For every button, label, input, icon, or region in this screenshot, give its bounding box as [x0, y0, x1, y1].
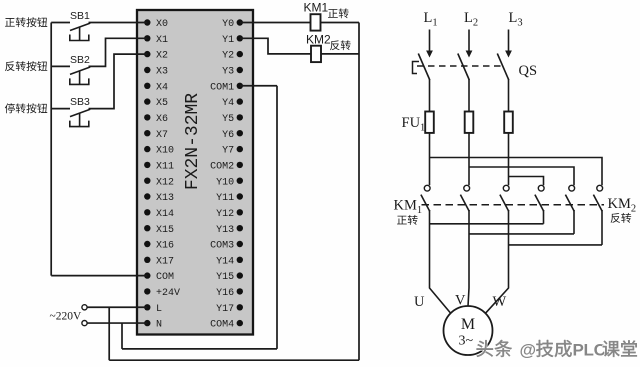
- svg-text:COM1: COM1: [210, 82, 234, 93]
- contact KM1 a: pivot: [424, 185, 430, 191]
- wire KM2 contact b down: [573, 210, 575, 234]
- svg-text:Y5: Y5: [222, 114, 234, 125]
- wire L: [87, 306, 147, 308]
- svg-text:COM3: COM3: [210, 241, 234, 252]
- wire KM2 contact c down: [601, 210, 603, 245]
- output terminal Y2: [222, 51, 243, 62]
- svg-text:X5: X5: [156, 98, 168, 109]
- label 正转按钮 (forward button): [5, 17, 47, 27]
- fuse FU1 a: [425, 112, 434, 133]
- contact KM2 c: pivot: [597, 185, 603, 191]
- input terminal N: [144, 320, 162, 331]
- svg-text:Y14: Y14: [216, 256, 234, 267]
- svg-text:X12: X12: [156, 177, 174, 188]
- wire junction U row: [430, 223, 544, 225]
- wire N: [87, 322, 147, 324]
- svg-text:PLC: PLC: [573, 341, 606, 360]
- motor lead V: [468, 210, 469, 306]
- wire fuse c down: [508, 133, 510, 185]
- svg-text:Y12: Y12: [216, 209, 234, 220]
- svg-text:KM2: KM2: [608, 196, 637, 215]
- svg-text:Y4: Y4: [222, 98, 234, 109]
- wire junction W row: [509, 244, 603, 246]
- pushbutton SB2 (NO contact): [51, 66, 90, 84]
- wire Y1 to KM2 coil: [240, 38, 311, 54]
- svg-text:L2: L2: [464, 10, 478, 29]
- svg-text:M: M: [461, 316, 475, 333]
- svg-text:KM1: KM1: [394, 198, 423, 217]
- svg-text:SB2: SB2: [70, 54, 90, 66]
- wire coil return bottom: [109, 359, 359, 361]
- wire up to L line: [108, 307, 110, 360]
- output terminal COM3: [210, 241, 243, 252]
- svg-text:L3: L3: [509, 10, 523, 29]
- motor M circle: [444, 306, 493, 355]
- input terminal X10: [144, 146, 174, 157]
- svg-text:KM2: KM2: [306, 32, 331, 46]
- fuse FU1 c: [504, 112, 513, 133]
- svg-text:~220V: ~220V: [50, 311, 82, 323]
- wire KM1 coil to return: [321, 22, 360, 24]
- svg-text:X0: X0: [156, 19, 168, 30]
- watermark 技成: [536, 340, 572, 357]
- contact KM2 a: pivot: [538, 185, 544, 191]
- wire to COM terminal: [51, 275, 147, 277]
- label 正转 (forward): [328, 8, 349, 18]
- svg-text:@: @: [520, 341, 537, 360]
- svg-text:QS: QS: [519, 63, 538, 79]
- svg-text:Y3: Y3: [222, 67, 234, 78]
- wire crossover L3 to KM2 contact a: [509, 177, 544, 186]
- svg-text:X15: X15: [156, 225, 174, 236]
- svg-text:Y1: Y1: [222, 35, 234, 46]
- contact KM1 b: blade: [460, 195, 469, 212]
- svg-text:COM4: COM4: [210, 320, 234, 331]
- svg-text:X10: X10: [156, 146, 174, 157]
- switch QS blade a: [418, 54, 430, 81]
- input terminal X3: [144, 67, 168, 78]
- svg-text:Y11: Y11: [216, 193, 234, 204]
- supply line L3 with arrow: [505, 30, 512, 58]
- wire KM2 coil to return: [321, 53, 359, 55]
- wire KM2 contact a down: [543, 210, 545, 224]
- svg-text:X16: X16: [156, 241, 174, 252]
- supply line L1 with arrow: [426, 30, 433, 58]
- svg-text:+24V: +24V: [156, 288, 180, 299]
- motor lead W: [485, 210, 508, 313]
- wire QS a to fuse: [429, 79, 431, 111]
- svg-text:X13: X13: [156, 193, 174, 204]
- output terminal Y11: [216, 193, 243, 204]
- wire SB2 to X1: [89, 38, 148, 66]
- output terminal Y4: [222, 98, 243, 109]
- svg-text:W: W: [493, 294, 507, 310]
- svg-text:Y16: Y16: [216, 288, 234, 299]
- wire QS b to fuse: [468, 79, 470, 111]
- input terminal X17: [144, 256, 174, 267]
- wire junction V row: [469, 233, 574, 235]
- svg-text:FX2N-32MR: FX2N-32MR: [183, 93, 203, 190]
- switch QS blade c: [497, 54, 509, 81]
- wire SB1 to X0: [89, 22, 148, 24]
- input terminal X15: [144, 225, 174, 236]
- label 反转 (reverse): [611, 213, 632, 223]
- wire Y0 to KM1 coil: [240, 22, 311, 24]
- output terminal Y10: [216, 177, 243, 188]
- switch QS handle: [413, 62, 420, 74]
- label 反转 (reverse): [330, 40, 351, 50]
- svg-text:Y2: Y2: [222, 51, 234, 62]
- contact KM2 b: blade: [565, 195, 574, 212]
- output terminal Y0: [222, 19, 243, 30]
- svg-text:L: L: [156, 304, 162, 315]
- output terminal COM2: [210, 161, 243, 172]
- svg-text:FU1: FU1: [402, 115, 426, 134]
- wire COM1 vertical: [276, 86, 278, 349]
- watermark 课堂: [603, 340, 637, 357]
- svg-text:Y17: Y17: [216, 304, 234, 315]
- output terminal Y13: [216, 225, 243, 236]
- contact KM1 c: blade: [500, 195, 509, 212]
- input terminal X5: [144, 98, 168, 109]
- input terminal COM: [144, 272, 174, 283]
- output terminal COM4: [210, 320, 243, 331]
- output terminal Y1: [222, 35, 243, 46]
- contact KM1 a: blade: [421, 195, 430, 212]
- svg-text:X14: X14: [156, 209, 174, 220]
- input terminal +24V: [144, 288, 180, 299]
- label 停转按钮 (stop button): [5, 103, 47, 113]
- wire coil return vertical: [358, 23, 360, 361]
- svg-text:X3: X3: [156, 67, 168, 78]
- svg-text:Y0: Y0: [222, 19, 234, 30]
- label 反转按钮 (reverse button): [5, 61, 47, 71]
- svg-text:U: U: [414, 294, 425, 310]
- svg-text:N: N: [156, 320, 162, 331]
- svg-text:X6: X6: [156, 114, 168, 125]
- svg-text:X7: X7: [156, 130, 168, 141]
- output terminal Y6: [222, 130, 243, 141]
- svg-text:Y6: Y6: [222, 130, 234, 141]
- svg-text:X2: X2: [156, 51, 168, 62]
- relay coil KM1: [311, 14, 321, 30]
- input terminal X11: [144, 161, 174, 172]
- contact KM2 b: pivot: [569, 185, 575, 191]
- output terminal Y17: [216, 304, 243, 315]
- output terminal Y5: [222, 114, 243, 125]
- svg-text:Y13: Y13: [216, 225, 234, 236]
- svg-text:SB3: SB3: [70, 96, 90, 108]
- wire COM1 output common: [240, 85, 277, 87]
- svg-text:X1: X1: [156, 35, 168, 46]
- output terminal COM1: [210, 82, 243, 93]
- svg-text:3~: 3~: [459, 334, 474, 349]
- pushbutton SB1 (NO contact): [51, 23, 90, 41]
- output terminal Y16: [216, 288, 243, 299]
- contact KM1 c: pivot: [503, 185, 509, 191]
- contact KM2 c: blade: [593, 195, 602, 212]
- contact KM1 b: pivot: [464, 185, 470, 191]
- PLC body FX2N-32MR: [137, 10, 253, 335]
- wire fuse b down: [468, 133, 470, 185]
- pushbutton SB3 (NO contact): [51, 109, 90, 127]
- svg-text:COM2: COM2: [210, 161, 234, 172]
- svg-text:X11: X11: [156, 161, 174, 172]
- wire crossover L1 to KM2 contact c: [430, 158, 603, 186]
- svg-text:COM: COM: [156, 272, 174, 283]
- motor lead U: [430, 210, 451, 313]
- svg-text:Y7: Y7: [222, 146, 234, 157]
- input terminal X14: [144, 209, 174, 220]
- wire up to N line: [121, 323, 123, 349]
- input terminal X2: [144, 51, 168, 62]
- input terminal X7: [144, 130, 168, 141]
- supply terminal N: [82, 321, 87, 326]
- input terminal X16: [144, 241, 174, 252]
- wire COM1 bottom: [122, 348, 277, 350]
- contactor linkage (dashed): [422, 204, 605, 206]
- output terminal Y12: [216, 209, 243, 220]
- wire QS c to fuse: [508, 79, 510, 111]
- wire common vertical to COM: [50, 23, 52, 276]
- svg-text:L1: L1: [424, 10, 438, 29]
- supply terminal L: [82, 305, 87, 310]
- svg-text:SB1: SB1: [70, 10, 90, 22]
- switch QS blade b: [458, 54, 470, 81]
- output terminal Y7: [222, 146, 243, 157]
- svg-text:KM1: KM1: [304, 1, 329, 15]
- svg-text:X4: X4: [156, 82, 168, 93]
- output terminal Y14: [216, 256, 243, 267]
- svg-text:X17: X17: [156, 256, 174, 267]
- input terminal X1: [144, 35, 168, 46]
- input terminal X12: [144, 177, 174, 188]
- label 正转 (forward): [397, 215, 418, 225]
- input terminal X6: [144, 114, 168, 125]
- fuse FU1 b: [465, 112, 474, 133]
- output terminal Y3: [222, 67, 243, 78]
- input terminal L: [144, 304, 162, 315]
- wire crossover L2 to KM2 contact b: [469, 167, 574, 185]
- wire SB3 to X2: [89, 54, 148, 108]
- input terminal X4: [144, 82, 168, 93]
- contact KM2 a: blade: [535, 195, 544, 212]
- supply line L2 with arrow: [466, 30, 473, 58]
- switch QS linkage (dashed): [417, 65, 505, 67]
- wire fuse a down: [429, 133, 431, 185]
- svg-text:Y10: Y10: [216, 177, 234, 188]
- input terminal X0: [144, 19, 168, 30]
- svg-text:Y15: Y15: [216, 272, 234, 283]
- relay coil KM2: [311, 46, 321, 62]
- watermark 头条: [477, 340, 512, 357]
- output terminal Y15: [216, 272, 243, 283]
- input terminal X13: [144, 193, 174, 204]
